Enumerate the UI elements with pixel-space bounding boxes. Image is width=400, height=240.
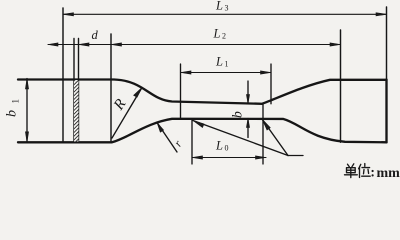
svg-text:L: L xyxy=(215,0,223,13)
L0 right arrow xyxy=(256,156,267,159)
glyph 位 xyxy=(359,164,361,177)
R leader line xyxy=(112,88,142,139)
L2 right arrow xyxy=(330,43,341,46)
svg-text:b: b xyxy=(230,111,245,118)
L1 dimension line xyxy=(181,72,272,74)
hatched gauge strip left line xyxy=(73,39,75,142)
r leader line xyxy=(157,123,177,153)
svg-text:L: L xyxy=(215,139,223,153)
R leader arrowhead xyxy=(134,88,142,98)
r leader arrowhead xyxy=(157,123,164,133)
b upper arrowhead xyxy=(246,95,249,104)
L0 dimension line xyxy=(192,157,266,159)
svg-text:3: 3 xyxy=(225,4,229,13)
b lower arrow line xyxy=(247,119,249,138)
leader tail dash xyxy=(288,155,303,157)
specimen bottom edge xyxy=(18,119,387,143)
colon xyxy=(372,170,374,177)
svg-text:d: d xyxy=(92,28,99,42)
svg-text:1: 1 xyxy=(11,99,21,104)
left clamp line xyxy=(110,34,112,142)
L0 left arrow xyxy=(192,156,203,159)
b1 top arrow xyxy=(25,79,28,90)
L1 right extension line xyxy=(270,64,272,104)
gauge mark leader 1 xyxy=(193,121,288,156)
unit note: 单位:mm xyxy=(345,164,371,178)
b1 dimension line xyxy=(26,79,28,143)
label b (rotated) xyxy=(230,111,245,118)
L0 left extension line / gauge mark xyxy=(191,119,193,164)
svg-text:L: L xyxy=(215,55,223,69)
L3 left arrow xyxy=(63,13,74,16)
right clamp line xyxy=(340,30,342,142)
L3 left extension line xyxy=(62,8,64,142)
L3 right arrow xyxy=(376,13,387,16)
L0 right extension line / gauge mark xyxy=(262,104,264,164)
svg-text:1: 1 xyxy=(225,60,229,69)
L3 right extension line xyxy=(386,7,388,80)
L1 right arrow xyxy=(261,71,272,74)
svg-text:L: L xyxy=(213,27,221,41)
L2 / d shared dimension line xyxy=(48,44,341,46)
label b1 (rotated) xyxy=(5,99,21,117)
L3 dimension line xyxy=(63,13,387,15)
d left arrow xyxy=(79,43,90,46)
svg-text:b: b xyxy=(5,110,20,117)
hatched strip fill xyxy=(74,80,79,142)
hatched gauge strip right line xyxy=(78,39,80,142)
glyph 单 xyxy=(348,164,354,167)
specimen right end edge xyxy=(385,80,387,143)
b upper arrow line xyxy=(247,81,249,104)
leader 1 arrowhead xyxy=(193,121,204,128)
b lower arrowhead xyxy=(246,119,249,128)
leader 2 arrowhead xyxy=(262,119,270,130)
svg-text:0: 0 xyxy=(225,144,229,153)
L1 left arrow xyxy=(181,71,192,74)
gauge mark leader 2 xyxy=(262,119,288,156)
svg-text:mm: mm xyxy=(377,166,400,179)
d right arrow xyxy=(111,43,122,46)
L1 left extension line xyxy=(180,64,182,119)
L2 left end arrow xyxy=(48,43,58,46)
specimen outline top edge xyxy=(18,80,387,104)
b1 bottom arrow xyxy=(25,132,28,143)
svg-text:2: 2 xyxy=(222,32,226,41)
